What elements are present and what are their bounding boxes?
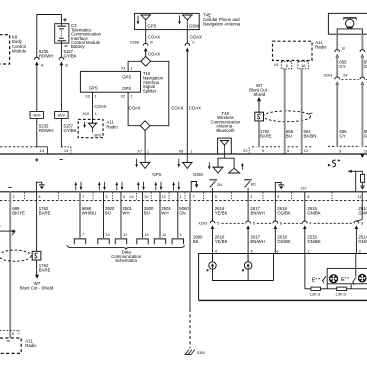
flag arrow (module internal, pin 7) [191, 182, 196, 192]
microphone return bus [213, 280, 274, 282]
svg-text:X7: X7 [137, 149, 142, 153]
wire 2501 WH (2) [159, 192, 161, 238]
wire 2618 OG/BK [274, 192, 276, 221]
svg-text:X8: X8 [179, 149, 184, 153]
svg-text:GPS: GPS [122, 86, 131, 91]
switch GN (module internal) [209, 179, 217, 181]
splice S (shield drain lower) [32, 251, 41, 260]
shield ellipse around 689 [0, 250, 31, 261]
svg-text:X203: X203 [323, 74, 332, 78]
svg-text:GN/WH: GN/WH [358, 210, 367, 215]
svg-text:10: 10 [145, 233, 149, 237]
antenna GSM (module internal) [186, 154, 188, 162]
svg-text:1: 1 [95, 112, 97, 116]
microphone 1 [212, 254, 214, 262]
svg-text:X2: X2 [121, 95, 126, 99]
icon circle 1 [329, 274, 338, 283]
svg-text:BK: BK [193, 239, 199, 244]
wire 2514 GN/WH [361, 192, 363, 220]
svg-text:9: 9 [339, 149, 341, 153]
antenna element GPS [140, 14, 151, 16]
wire 6886 WH/BU [79, 192, 81, 238]
svg-text:A: A [41, 63, 44, 67]
svg-text:7: 7 [193, 195, 195, 199]
connector pin 6 (X203) [246, 221, 251, 223]
switch 2 (E--/) with resistor 1.5K [355, 254, 357, 277]
svg-text:C: C [192, 40, 195, 44]
svg-text:24: 24 [343, 74, 347, 78]
splice diamond (GPS coax) [141, 56, 151, 66]
svg-text:1: 1 [190, 149, 192, 153]
wire to splitter X1 [128, 61, 141, 71]
shield ellipse around 655/654 [263, 111, 310, 122]
microphone 2 [247, 254, 249, 262]
svg-text:1.5K Ω: 1.5K Ω [310, 292, 321, 296]
svg-text:5: 5 [277, 195, 279, 199]
connector dashed line (module bottom) [0, 199, 367, 201]
battery terminals + / - [35, 159, 38, 161]
svg-text:X1: X1 [121, 66, 126, 70]
svg-text:1: 1 [130, 66, 132, 70]
wire 2515 (below X203) [304, 228, 306, 254]
svg-text:BN/WH: BN/WH [250, 210, 264, 215]
svg-text:COAX: COAX [148, 51, 160, 56]
module A11 Radio (bottom, dashed box) [0, 338, 21, 353]
svg-text:11: 11 [358, 195, 362, 199]
pin 14 [46, 147, 48, 154]
svg-text:GN/BK: GN/BK [307, 239, 321, 244]
svg-text:1: 1 [147, 149, 149, 153]
arrow down (GSM) [179, 15, 181, 21]
svg-text:YE/BK: YE/BK [215, 210, 228, 215]
svg-text:2: 2 [250, 195, 252, 199]
component box (microphone / switches) [199, 254, 367, 301]
antenna (AM/FM, top right box clipped) [328, 13, 367, 34]
svg-text:GY: GY [339, 134, 345, 139]
pin separators [24, 192, 26, 200]
splice diamond 2 [140, 121, 150, 131]
svg-text:G300: G300 [197, 351, 206, 355]
svg-text:X4: X4 [274, 63, 279, 67]
svg-text:OG/BK: OG/BK [277, 210, 291, 215]
svg-text:Radio: Radio [315, 44, 327, 49]
svg-text:X3: X3 [85, 95, 90, 99]
splitter T15 Navigation Antenna Signal Splitter [80, 71, 140, 92]
svg-text:Navigation Antenna: Navigation Antenna [203, 21, 241, 26]
svg-text:1: 1 [130, 95, 132, 99]
module K9 Body Control Module (dashed box, clipped at left) [0, 35, 10, 64]
svg-text:X1: X1 [129, 195, 134, 199]
svg-text:WH/BU: WH/BU [82, 210, 96, 215]
svg-text:2: 2 [13, 195, 15, 199]
svg-text:6: 6 [12, 332, 14, 336]
wire 2617 BN/WH [247, 192, 249, 221]
svg-text:12: 12 [123, 233, 127, 237]
module bottom border [0, 191, 367, 193]
svg-text:BK/YE: BK/YE [12, 210, 25, 215]
pin 13 [61, 146, 71, 148]
svg-text:X2: X2 [243, 149, 248, 153]
wire 655 GY [336, 34, 338, 49]
wire 1762 BARE [36, 192, 38, 252]
wire X3 GPS coax to radio [92, 92, 94, 123]
svg-text:1: 1 [180, 233, 182, 237]
svg-text:WH: WH [122, 210, 129, 215]
wire 5157 GY/BK (B side) [60, 43, 62, 57]
wire 654 GY (clipped) [361, 34, 363, 49]
svg-text:BN/WH: BN/WH [250, 239, 264, 244]
bluetooth transceiver antennas (module internal) [224, 154, 226, 158]
svg-text:GN: GN [217, 183, 223, 187]
ground (module internal, pin 5) [275, 182, 281, 191]
svg-text:6: 6 [253, 222, 255, 226]
wire right branch of diamond [150, 61, 169, 125]
wire diamond 2 to module X7 [144, 131, 146, 154]
arrow down at radio antenna [84, 122, 86, 125]
svg-text:1.5K Ω: 1.5K Ω [335, 292, 346, 296]
module top border [0, 153, 367, 155]
svg-text:COAX: COAX [129, 106, 141, 111]
svg-text:Blunt Cut - Shield: Blunt Cut - Shield [20, 286, 54, 291]
svg-text:COAX: COAX [94, 104, 106, 109]
minus (module internal far left) [8, 186, 11, 188]
svg-text:BARE: BARE [260, 134, 272, 139]
ground (module internal left, pin 8) [36, 182, 41, 192]
svg-text:13: 13 [64, 149, 68, 153]
svg-text:0: 0 [0, 224, 1, 228]
svg-text:COAX: COAX [189, 106, 201, 111]
svg-text:RD/WH: RD/WH [39, 54, 54, 59]
wire 2618 (below X203) [274, 228, 276, 254]
svg-text:BARE: BARE [39, 210, 51, 215]
wire 2500 BU (2) [142, 192, 144, 238]
svg-text:12: 12 [162, 233, 166, 237]
pin 6 (X4) [281, 62, 291, 69]
wire 2515 GN/BK [304, 192, 306, 221]
antenna T4E Cellular Phone and Navigation Antenna (box) [135, 13, 200, 29]
svg-text:GSM: GSM [193, 172, 203, 177]
svg-text:GN: GN [179, 210, 185, 215]
svg-text:6: 6 [287, 149, 289, 153]
signal direction arrows (module internal) [75, 185, 77, 191]
svg-text:10: 10 [106, 233, 110, 237]
inner box (switch icons) [327, 268, 367, 283]
brace Data Communication Schematics [67, 245, 185, 249]
svg-text:8: 8 [38, 195, 40, 199]
antenna element GSM [182, 14, 193, 16]
wire COAX C GSM to module X8 [186, 30, 188, 44]
svg-text:BU: BU [286, 134, 292, 139]
wire 654 BK/BN [301, 69, 303, 154]
svg-text:GPS: GPS [152, 172, 161, 177]
wire battery top loop [37, 15, 62, 58]
battery C3 Telematics Communication Interface Control Module Battery [55, 24, 69, 43]
svg-text:16: 16 [301, 64, 305, 68]
svg-text:BARE: BARE [39, 268, 51, 273]
svg-text:GPS: GPS [94, 133, 102, 137]
connector dashes (X203) [222, 222, 246, 224]
svg-text:-AVV-: -AVV- [57, 114, 67, 118]
arrow down (top right input) [360, 155, 364, 159]
connector pin 4 (X203) [302, 221, 307, 223]
antenna box internal wires [337, 29, 362, 34]
svg-text:GY: GY [339, 64, 345, 69]
svg-text:1: 1 [180, 195, 182, 199]
svg-text:4: 4 [309, 222, 311, 226]
svg-text:Splitter: Splitter [143, 88, 157, 93]
module A11 Radio (GPS input, dashed box) [78, 119, 103, 137]
jog wire 2514 [356, 220, 362, 222]
svg-text:X10: X10 [82, 112, 89, 116]
svg-text:Battery: Battery [71, 44, 85, 49]
wire X2 output to diamond 2 [128, 92, 140, 126]
arrow down (internal GPS) [136, 159, 138, 165]
svg-text:RD: RD [251, 183, 257, 187]
svg-text:COAX: COAX [148, 34, 160, 39]
svg-text:BU: BU [105, 210, 111, 215]
svg-text:4: 4 [123, 195, 125, 199]
switch RD (module internal) [244, 179, 252, 181]
svg-text:COAX: COAX [190, 34, 202, 39]
svg-text:BU: BU [144, 210, 150, 215]
wire 2616 YE/BK [212, 192, 214, 221]
wire 2616 (below X203) [212, 228, 214, 262]
blunt cut W7 Blunt Cut - Shield (bottom) [35, 275, 39, 279]
svg-text:WH: WH [161, 210, 168, 215]
connector pin 6 (A11 radio bottom) [0, 329, 20, 331]
wire COAX B from GPS antenna [145, 30, 147, 44]
inline connector -AVV- (right) [55, 112, 69, 119]
wire 2514 (below X203) [355, 228, 357, 254]
wire 2501 WH [120, 192, 122, 238]
svg-text:3: 3 [215, 195, 217, 199]
svg-text:GN/BK: GN/BK [307, 210, 321, 215]
svg-text:X288: X288 [130, 40, 139, 44]
wire 655 BU [284, 69, 286, 154]
svg-text:3: 3 [105, 195, 107, 199]
svg-text:GY/BK: GY/BK [64, 128, 77, 133]
antenna symbol inside radio [88, 122, 98, 124]
inline connector -AVV- (left) [30, 112, 44, 119]
svg-text:6: 6 [286, 64, 288, 68]
svg-text:Schematics: Schematics [115, 258, 137, 263]
svg-text:Radio: Radio [25, 343, 37, 348]
splice S (shield drain) [255, 112, 264, 121]
svg-text:7: 7 [82, 195, 84, 199]
pin 16 (X4) [298, 62, 308, 69]
arrow down (GPS) [137, 15, 139, 21]
resistor to ground (module internal, pin 11) [348, 170, 362, 172]
connector X1 dashed line (module top left) [0, 146, 36, 148]
ground G300 [184, 354, 191, 356]
icon circle 2 [358, 274, 367, 283]
arrow down (bt) [208, 162, 210, 166]
wire 1762 BARE (lower) [36, 260, 38, 275]
svg-text:Shield: Shield [253, 92, 266, 97]
svg-text:Bluetooth: Bluetooth [216, 128, 235, 133]
svg-text:9: 9 [262, 149, 264, 153]
svg-text:B: B [65, 63, 68, 67]
wire 5060 GN [177, 192, 179, 238]
svg-text:10: 10 [144, 195, 148, 199]
module A11 Radio (top right, dashed box) [273, 41, 313, 60]
connector dashed line (top right pins) [328, 145, 335, 147]
svg-text:YE/BK: YE/BK [215, 239, 228, 244]
svg-text:GPS: GPS [122, 75, 131, 80]
svg-text:X203: X203 [198, 222, 207, 226]
svg-text:7: 7 [82, 233, 84, 237]
svg-text:BK/BN: BK/BN [304, 134, 317, 139]
svg-text:1: 1 [94, 95, 96, 99]
svg-text:GY/BK: GY/BK [64, 54, 77, 59]
svg-text:GSM: GSM [189, 23, 199, 28]
svg-text:5: 5 [217, 222, 219, 226]
connector pin 5 (X203) [210, 221, 215, 223]
svg-text:12V: 12V [300, 186, 307, 190]
wire 1792 BARE (drain) [258, 101, 260, 112]
svg-text:8: 8 [280, 222, 282, 226]
svg-text:3: 3 [361, 222, 363, 226]
switch 1 (E--/) with resistor 1.5K [304, 254, 306, 289]
wire 2500 BU [103, 192, 105, 238]
svg-text:E: E [341, 277, 345, 283]
wire 2617 (below X203) [247, 228, 249, 262]
svg-text:GPS: GPS [147, 23, 156, 28]
svg-text:GPS: GPS [89, 86, 98, 91]
connector pin 3 (X203) [354, 221, 359, 223]
svg-text:12: 12 [304, 149, 308, 153]
connector pin 8 (X203) [273, 221, 278, 223]
wire to ground (dashed) [189, 309, 191, 348]
svg-text:OG/BK: OG/BK [277, 239, 291, 244]
svg-text:Module: Module [12, 48, 27, 53]
svg-text:COAX: COAX [171, 106, 183, 111]
svg-text:12: 12 [162, 195, 166, 199]
RF squiggle (module internal, pin 9) [328, 164, 331, 167]
svg-text:6: 6 [307, 195, 309, 199]
svg-text:GN/WH: GN/WH [358, 239, 367, 244]
svg-text:Radio: Radio [106, 124, 118, 129]
arrow down (internal GSM) [178, 159, 180, 165]
wire 689 BK/YE [9, 192, 11, 338]
wire 1980 BK [189, 192, 191, 309]
svg-text:-AVV-: -AVV- [32, 114, 42, 118]
svg-text:E: E [312, 278, 316, 284]
svg-text:14: 14 [40, 149, 44, 153]
arrow up (bt) [241, 166, 243, 170]
antenna GPS (module internal) [144, 154, 146, 162]
svg-text:RD/WH: RD/WH [39, 128, 54, 133]
